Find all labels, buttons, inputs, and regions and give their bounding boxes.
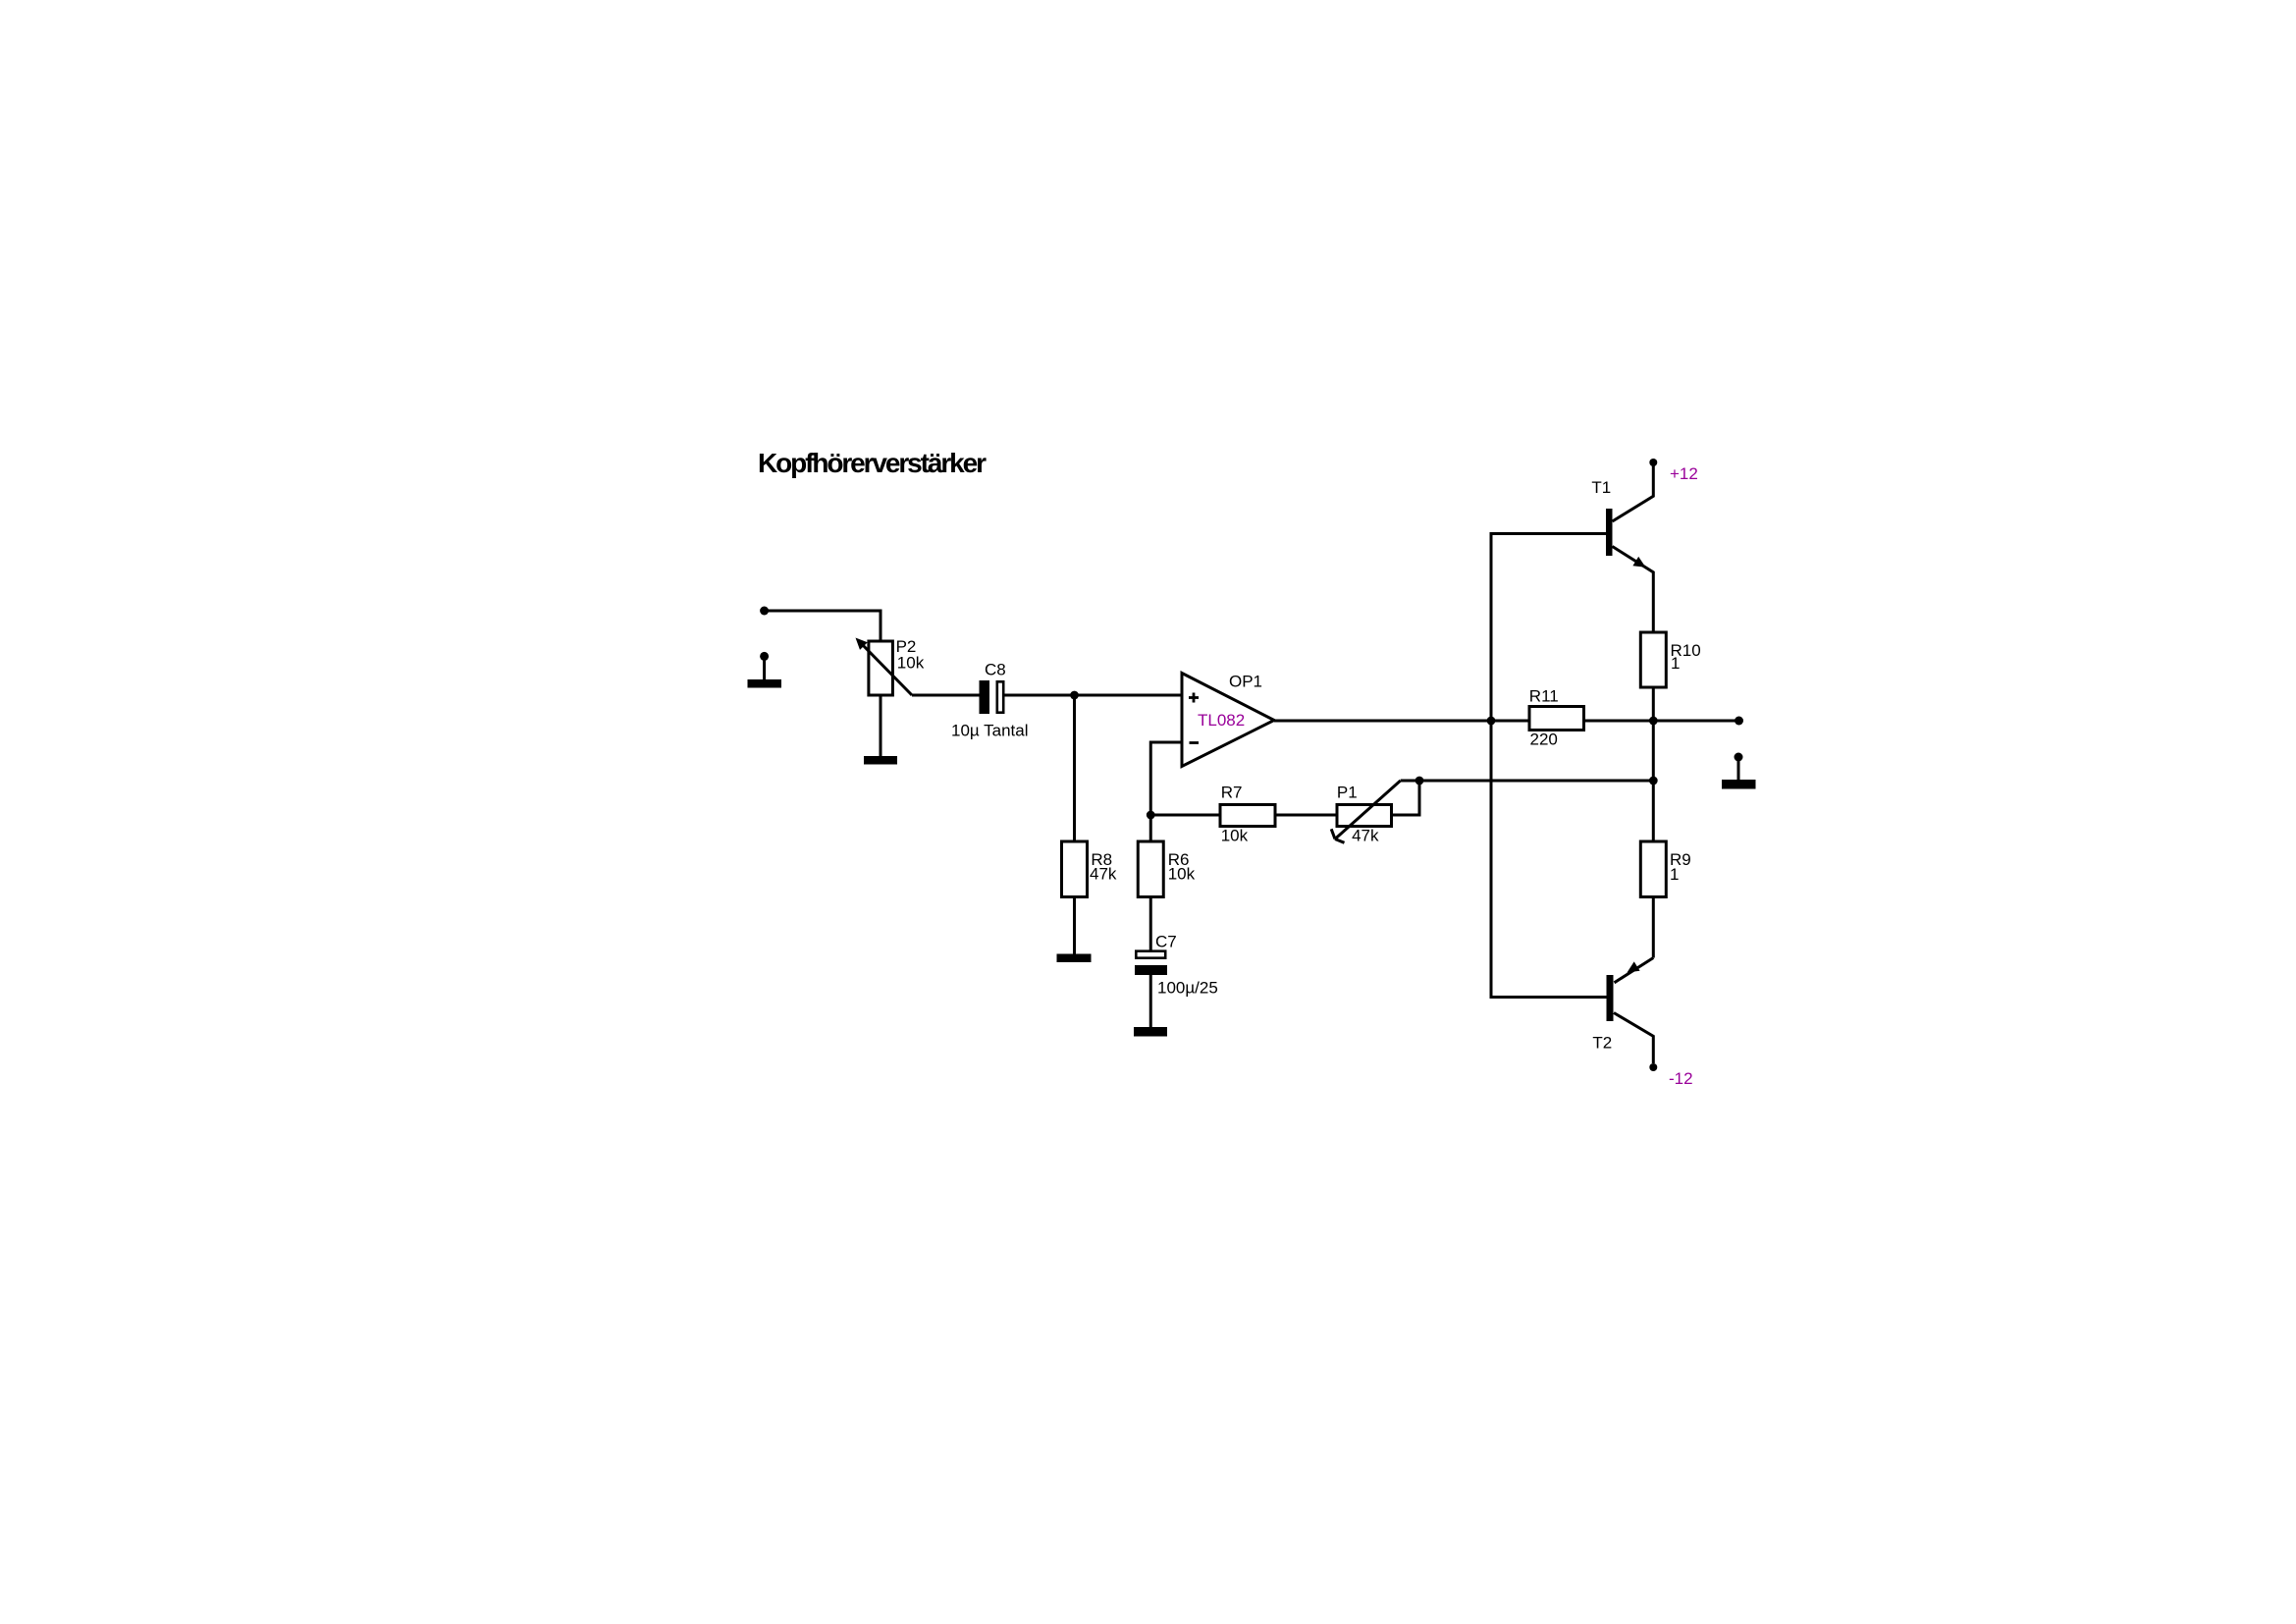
capacitor C8 (980, 680, 1004, 714)
wire P2 bottom terminal down (880, 695, 882, 756)
svg-text:C7: C7 (1155, 932, 1177, 950)
svg-text:-12: -12 (1669, 1069, 1693, 1088)
node junction C8/R8 (1070, 691, 1079, 700)
wire feedback P1 wiper to output divider (1419, 780, 1653, 783)
resistor R11 (1529, 707, 1584, 731)
node input terminal (760, 607, 769, 616)
wire base line from T1 base to T2 base (1491, 534, 1607, 998)
wire P2 wiper to C8 (912, 694, 980, 697)
ground below R8 (1057, 954, 1092, 963)
svg-text:Kopfhörerverstärker: Kopfhörerverstärker (758, 448, 987, 478)
wire junction down to R6 (1149, 815, 1152, 841)
node junction feedback at R9/R10 (1649, 777, 1658, 785)
svg-text:10µ Tantal: 10µ Tantal (951, 722, 1028, 740)
wire R6 to C7 (1149, 897, 1152, 951)
node junction R11/R9R10 (1649, 717, 1658, 726)
node junction P1 wiper (1415, 777, 1424, 785)
wire junction to R7 (1150, 814, 1220, 817)
pin label + (non-inverting input) (1189, 693, 1199, 703)
ground at input (748, 652, 782, 688)
wire C8 to op-amp + input (1004, 694, 1183, 697)
resistor R10 (1640, 632, 1666, 687)
node +12 supply terminal (1649, 459, 1657, 466)
svg-text:T1: T1 (1591, 478, 1611, 497)
resistor R8 (1062, 841, 1088, 897)
svg-text:P1: P1 (1337, 784, 1358, 802)
svg-text:+12: +12 (1670, 464, 1698, 483)
wire input terminal to P2 top (765, 611, 881, 641)
wire R9 to T2 emitter (1652, 897, 1655, 958)
svg-text:47k: 47k (1090, 865, 1117, 884)
resistor R6 (1138, 841, 1163, 897)
svg-text:R11: R11 (1529, 687, 1559, 706)
ground at output (1722, 753, 1756, 789)
wire P1 right terminal up to wiper junction (1392, 781, 1420, 815)
wire R7 to P1 (1275, 814, 1337, 817)
potentiometer P2 (856, 638, 913, 696)
wire R10 to R9 through output junctions (1652, 687, 1655, 841)
node output terminal (1735, 717, 1743, 726)
svg-text:10k: 10k (897, 654, 925, 673)
ground below P2 (864, 756, 897, 765)
svg-text:1: 1 (1671, 654, 1680, 673)
node junction output/base line (1487, 717, 1496, 726)
wire op-amp output to R11 (1274, 720, 1529, 723)
svg-text:47k: 47k (1352, 826, 1379, 844)
op-amp U1 OP1 (1182, 674, 1274, 767)
pin label - (inverting input) (1190, 741, 1200, 744)
svg-text:10k: 10k (1168, 865, 1196, 884)
svg-text:1: 1 (1670, 865, 1679, 884)
capacitor C7 (1135, 951, 1167, 975)
svg-text:OP1: OP1 (1229, 673, 1262, 691)
svg-text:R7: R7 (1221, 784, 1243, 802)
svg-text:100µ/25: 100µ/25 (1157, 978, 1218, 997)
resistor R7 (1220, 805, 1275, 827)
transistor Q1 T1 (1606, 466, 1653, 633)
wire R11 to output terminal (1584, 720, 1739, 723)
transistor Q2 T2 (1607, 958, 1654, 1064)
svg-text:T2: T2 (1592, 1034, 1612, 1053)
node junction R6/R7/inverting input (1147, 811, 1155, 820)
wire R8 to ground (1073, 897, 1076, 954)
svg-text:C8: C8 (985, 660, 1006, 678)
svg-text:10k: 10k (1221, 826, 1249, 844)
wire junction down to R8 (1073, 695, 1076, 841)
potentiometer P1 (1331, 781, 1419, 842)
ground below C7 (1134, 1027, 1167, 1037)
svg-text:220: 220 (1530, 731, 1558, 749)
wire op-amp inverting input to feedback junction (1150, 742, 1182, 815)
svg-text:TL082: TL082 (1198, 711, 1245, 730)
wire C7 to ground (1149, 975, 1152, 1027)
node -12 supply terminal (1649, 1063, 1657, 1071)
resistor R9 (1640, 841, 1666, 897)
